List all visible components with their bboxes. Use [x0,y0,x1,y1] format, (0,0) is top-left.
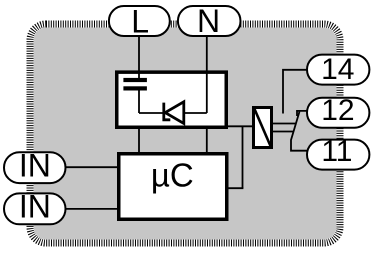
mechanical linkage line 1 [272,123,296,125]
wire diode rail horizontal [139,112,207,114]
wire N vertical (power block to uC) [206,129,208,153]
relay moving contact and wire 11 [291,112,308,151]
terminal L [109,6,170,36]
wire L vertical (oval L to power block capacitor) [138,37,140,78]
wire N vertical (oval N into power block) [206,37,208,113]
capacitor C1 plate 2 [123,86,146,90]
svg-text:µC: µC [151,157,194,194]
relay coil K1 [254,108,272,148]
wire contact 14 [283,70,308,114]
svg-text:IN: IN [19,189,51,225]
wire power block to relay coil [227,125,253,127]
svg-text:IN: IN [19,148,51,184]
terminal 11 [307,140,369,170]
terminal 12 [307,98,369,128]
wire uC right to junction [227,187,243,189]
mechanical linkage line 2 [272,131,293,133]
svg-text:11: 11 [321,135,352,168]
terminal IN 1 [4,152,66,183]
terminal N [178,6,241,36]
power supply block [117,72,227,127]
wire capacitor to diode rail [138,91,140,114]
wire L inside block to capacitor [138,72,140,79]
wire IN1 to uC [64,166,118,168]
wire N inside block to diode rail [206,72,208,113]
terminal IN 2 [4,193,66,224]
diode D1 cathode bar [164,103,171,120]
microcontroller uC block [119,154,227,220]
svg-text:14: 14 [321,53,354,86]
wire vertical junction to uC [242,126,244,188]
device body (gray fill) [34,28,337,240]
wire L vertical (power block to uC) [138,129,140,153]
device border (hatched) [30,24,340,243]
svg-text:12: 12 [321,94,354,127]
svg-text:N: N [197,3,220,39]
wire IN2 to uC [64,208,118,210]
capacitor C1 plate 1 [123,78,146,82]
svg-text:L: L [131,4,149,40]
terminal 14 [307,55,369,85]
relay coil diagonal [255,109,271,146]
wire contact 12 [297,111,308,116]
diode D1 triangle [165,102,184,124]
